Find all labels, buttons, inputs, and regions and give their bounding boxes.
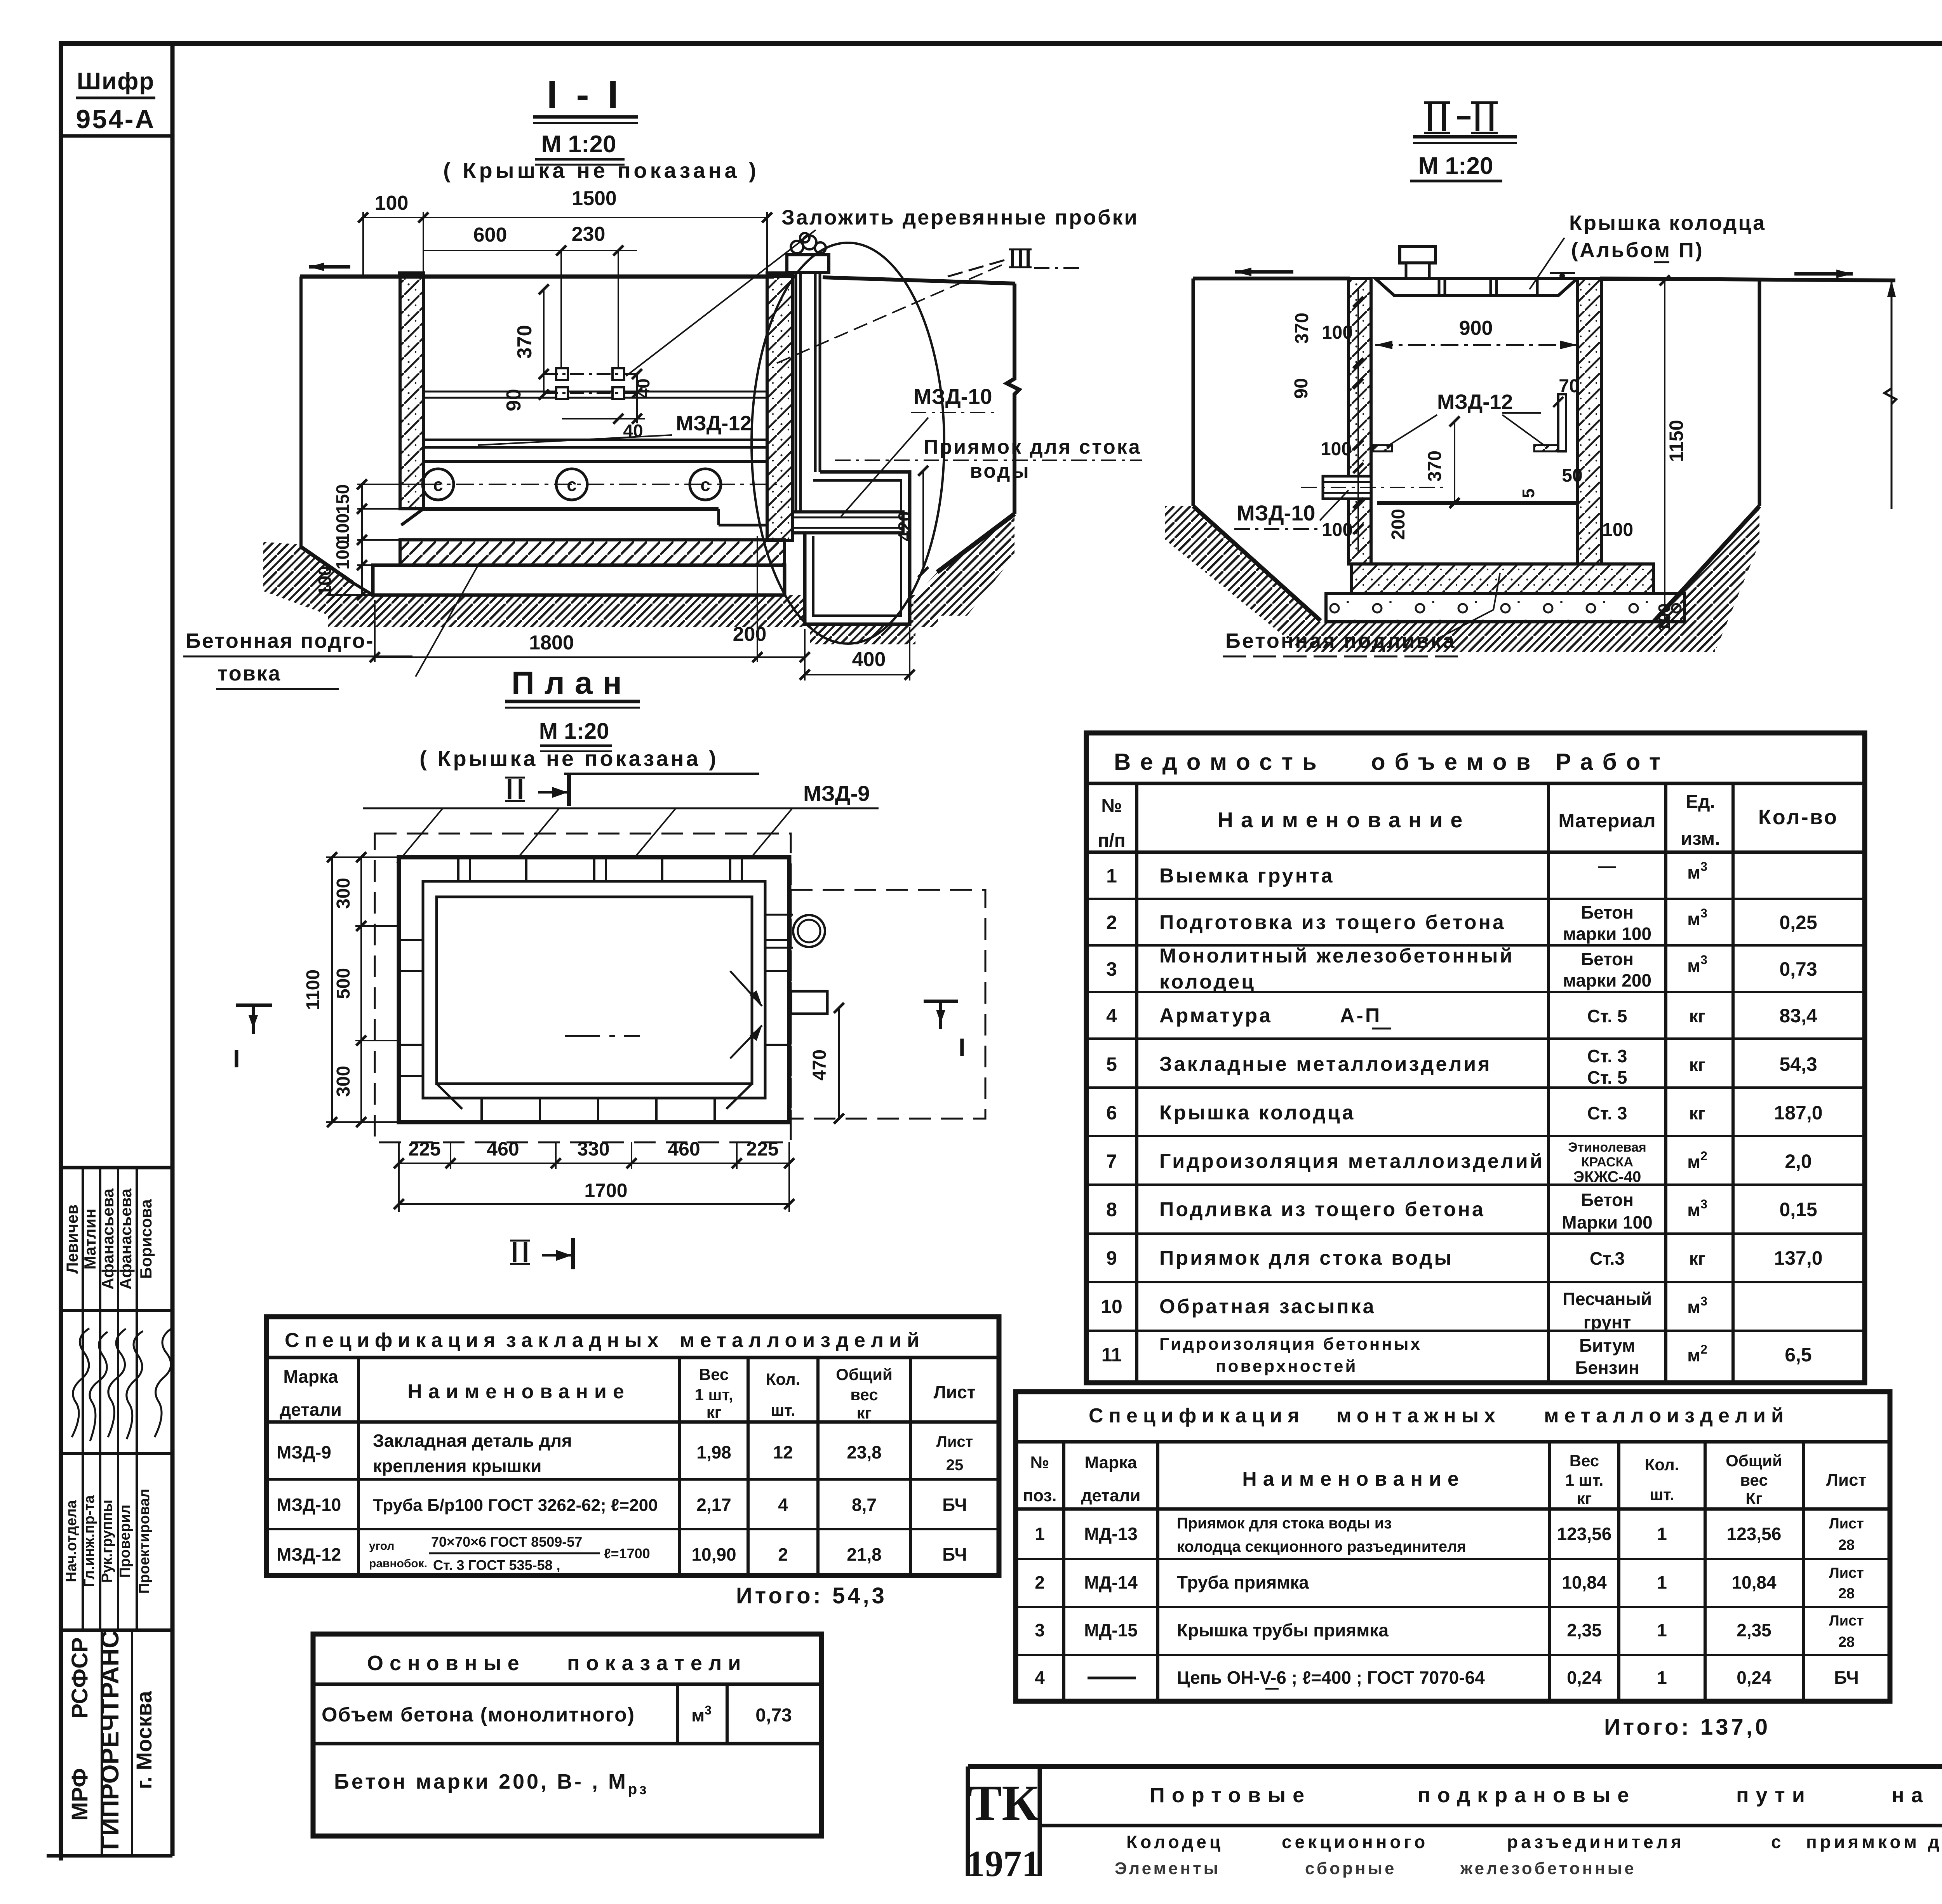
svg-text:Работ: Работ [1556, 749, 1670, 775]
svg-text:ГИПРОРЕЧТРАНС: ГИПРОРЕЧТРАНС [96, 1630, 124, 1850]
svg-text:200: 200 [1388, 509, 1409, 540]
block ticks top/bottom [399, 857, 789, 1122]
svg-text:954-А: 954-А [76, 104, 155, 134]
stub right [791, 991, 827, 1014]
svg-text:Подготовка из тощего бетона: Подготовка из тощего бетона [1159, 911, 1506, 934]
svg-text:187,0: 187,0 [1774, 1102, 1822, 1124]
svg-text:54,3: 54,3 [1779, 1053, 1817, 1075]
svg-text:Левичев: Левичев [63, 1204, 81, 1274]
svg-text:460: 460 [487, 1138, 519, 1160]
t1 rows: Кол-во [1774, 912, 1822, 1366]
svg-text:5: 5 [1519, 489, 1538, 498]
svg-text:Марка: Марка [283, 1366, 338, 1387]
svg-text:Марка: Марка [1084, 1453, 1137, 1472]
svg-text:123,56: 123,56 [1727, 1524, 1782, 1544]
svg-text:Подливка из тощего бетона: Подливка из тощего бетона [1159, 1198, 1485, 1221]
svg-text:вес: вес [850, 1385, 878, 1404]
excavation outline [299, 277, 303, 547]
svg-text:23,8: 23,8 [847, 1442, 882, 1462]
svg-text:Крышка колодца: Крышка колодца [1569, 211, 1766, 235]
svg-text:200: 200 [733, 623, 767, 646]
svg-text:Этинолевая: Этинолевая [1568, 1140, 1646, 1155]
strip rotated names [63, 1188, 155, 1290]
svg-text:1 шт.: 1 шт. [1565, 1471, 1604, 1489]
svg-text:Ст. 3 ГОСТ 535-58 ,: Ст. 3 ГОСТ 535-58 , [433, 1557, 560, 1573]
svg-text:МЗД-10: МЗД-10 [1237, 501, 1316, 525]
t1 rows: Наименование [1159, 865, 1544, 1376]
strip rotated org names [67, 1630, 156, 1850]
svg-text:МЗД-9: МЗД-9 [277, 1442, 331, 1462]
svg-text:Бетон: Бетон [1581, 949, 1634, 969]
vertical pipe [796, 273, 820, 512]
svg-text:равнобок.: равнобок. [369, 1557, 427, 1570]
svg-text:370: 370 [513, 325, 536, 359]
svg-text:ТК: ТК [968, 1775, 1039, 1831]
svg-text:Шифр: Шифр [77, 68, 155, 95]
svg-text:2,35: 2,35 [1567, 1620, 1602, 1640]
svg-text:28: 28 [1838, 1634, 1855, 1650]
svg-text:Общий: Общий [836, 1365, 893, 1384]
svg-text:230: 230 [572, 223, 606, 245]
svg-text:Итого: 137,0: Итого: 137,0 [1604, 1714, 1770, 1740]
section III mark [1013, 249, 1028, 267]
svg-text:90: 90 [503, 389, 525, 411]
svg-text:100: 100 [315, 566, 335, 596]
II-II title [1424, 103, 1498, 133]
svg-text:Элементы: Элементы [1115, 1859, 1220, 1878]
svg-text:детали: детали [1081, 1486, 1141, 1505]
svg-text:Крышка колодца: Крышка колодца [1159, 1102, 1355, 1124]
svg-text:Ст. 3: Ст. 3 [1587, 1103, 1627, 1123]
svg-text:( Крышка не показана ): ( Крышка не показана ) [419, 746, 719, 771]
svg-text:Спецификация: Спецификация [1089, 1405, 1305, 1427]
svg-text:4: 4 [1106, 1005, 1117, 1027]
svg-text:50: 50 [1562, 465, 1582, 486]
left dims [326, 857, 399, 1122]
svg-text:Кол.: Кол. [766, 1370, 800, 1388]
svg-text:330: 330 [577, 1138, 609, 1160]
svg-text:1150: 1150 [1665, 420, 1687, 462]
svg-text:Рук.группы: Рук.группы [99, 1500, 115, 1583]
svg-text:Кол.: Кол. [1645, 1455, 1679, 1474]
anchor circles [423, 469, 721, 500]
svg-text:кг: кг [857, 1404, 872, 1422]
inner corner bevels bottom [437, 1084, 462, 1109]
svg-text:83,4: 83,4 [1779, 1005, 1817, 1027]
svg-text:марки 200: марки 200 [1563, 970, 1651, 990]
svg-text:шт.: шт. [771, 1401, 795, 1419]
wall left (hatched) [400, 277, 423, 509]
svg-text:1,98: 1,98 [696, 1442, 731, 1462]
svg-text:100: 100 [332, 513, 353, 543]
pipe circle right [793, 915, 825, 947]
svg-text:900: 900 [1459, 317, 1493, 339]
svg-text:0,24: 0,24 [1737, 1667, 1771, 1688]
900 dim [1375, 344, 1577, 346]
svg-text:ℓ=1700: ℓ=1700 [604, 1545, 650, 1561]
svg-text:металлоизделий: металлоизделий [680, 1329, 925, 1352]
svg-text:угол: угол [369, 1540, 394, 1552]
balloon ellipse [752, 243, 944, 644]
svg-text:детали: детали [280, 1399, 342, 1420]
svg-text:10,84: 10,84 [1731, 1572, 1777, 1592]
svg-text:Гидроизоляция металлоизделий: Гидроизоляция металлоизделий [1159, 1150, 1544, 1173]
svg-text:1100: 1100 [303, 969, 324, 1010]
svg-text:2: 2 [1106, 912, 1117, 933]
svg-text:600: 600 [473, 224, 507, 246]
ground hatch wedges [263, 542, 357, 617]
svg-text:Материал: Материал [1558, 810, 1656, 832]
svg-text:А-П: А-П [1340, 1004, 1382, 1027]
svg-text:БЧ: БЧ [942, 1544, 967, 1565]
svg-text:МЗД-9: МЗД-9 [803, 781, 870, 806]
svg-text:поз.: поз. [1023, 1486, 1057, 1505]
svg-text:7: 7 [1106, 1150, 1117, 1172]
cover slab [1375, 278, 1577, 296]
left dim stack [326, 484, 423, 595]
svg-text:кг: кг [1689, 1248, 1705, 1269]
svg-text:25: 25 [946, 1457, 964, 1474]
wall top caps [398, 272, 425, 277]
svg-text:10,90: 10,90 [691, 1544, 736, 1565]
svg-text:секционного: секционного [1282, 1832, 1428, 1852]
svg-text:420: 420 [894, 512, 915, 541]
svg-text:М 1:20: М 1:20 [1418, 153, 1493, 179]
svg-text:с: с [1771, 1832, 1784, 1852]
svg-text:Ед.: Ед. [1686, 792, 1715, 812]
strip rotated job titles [63, 1489, 153, 1594]
svg-text:ЭКЖС-40: ЭКЖС-40 [1573, 1168, 1641, 1185]
II bottom marker [510, 1241, 530, 1264]
II top marker [505, 778, 525, 801]
svg-text:370: 370 [1425, 451, 1445, 482]
dashed excavation outline [375, 834, 791, 1142]
strip signatures (cursive squiggles) [72, 1328, 172, 1441]
svg-text:1800: 1800 [529, 632, 574, 654]
svg-text:150: 150 [332, 484, 353, 514]
walls [1349, 278, 1371, 564]
svg-text:28: 28 [1838, 1586, 1855, 1602]
svg-text:МЗД-10: МЗД-10 [277, 1495, 341, 1515]
svg-text:Лист: Лист [1829, 1613, 1864, 1629]
svg-text:Бетон: Бетон [1581, 1190, 1634, 1210]
ground hatch [1165, 506, 1321, 646]
svg-text:100: 100 [1321, 439, 1352, 459]
svg-text:кг: кг [1689, 1055, 1705, 1075]
svg-text:Афанасьева: Афанасьева [99, 1188, 117, 1290]
svg-text:—: — [1598, 856, 1616, 876]
upper rail thin pair [423, 391, 767, 393]
svg-text:Ведомость: Ведомость [1114, 749, 1326, 775]
bottom slabs [1351, 564, 1653, 593]
svg-text:г. Москва: г. Москва [132, 1691, 156, 1789]
svg-text:поверхностей: поверхностей [1216, 1357, 1358, 1376]
МЗД-10 horizontal pipe [792, 512, 903, 533]
svg-text:9: 9 [1106, 1247, 1117, 1269]
dims top [361, 212, 769, 372]
floor [423, 507, 719, 511]
svg-text:4: 4 [778, 1495, 788, 1515]
svg-text:Ст. 5: Ст. 5 [1587, 1006, 1627, 1026]
svg-text:Обратная засыпка: Обратная засыпка [1159, 1295, 1376, 1318]
svg-text:Портовые: Портовые [1150, 1784, 1311, 1807]
svg-text:8,7: 8,7 [852, 1495, 877, 1515]
svg-text:90: 90 [1291, 378, 1312, 399]
svg-text:товка: товка [218, 662, 281, 685]
svg-text:Нач.отдела: Нач.отдела [63, 1500, 80, 1582]
pump head [1400, 246, 1436, 263]
svg-text:2,17: 2,17 [696, 1495, 731, 1515]
svg-text:470: 470 [809, 1049, 830, 1081]
svg-text:БЧ: БЧ [942, 1495, 967, 1515]
svg-text:МД-13: МД-13 [1084, 1524, 1138, 1544]
svg-text:колодец: колодец [1159, 971, 1256, 993]
ground line [300, 275, 774, 279]
svg-text:( Крышка не показана ): ( Крышка не показана ) [443, 158, 759, 183]
svg-text:1: 1 [1106, 865, 1117, 887]
bottom dims [373, 536, 910, 680]
svg-text:370: 370 [1292, 313, 1312, 344]
bottom dims [399, 1142, 789, 1212]
svg-text:на: на [1892, 1784, 1930, 1807]
svg-text:137,0: 137,0 [1774, 1247, 1822, 1269]
svg-text:КРАСКА: КРАСКА [1581, 1155, 1633, 1170]
svg-text:Афанасьева: Афанасьева [117, 1188, 135, 1290]
svg-text:Наименование: Наименование [407, 1380, 630, 1403]
svg-text:Итого: 54,3: Итого: 54,3 [736, 1583, 887, 1608]
svg-text:1: 1 [1657, 1667, 1667, 1688]
svg-text:№: № [1030, 1453, 1049, 1472]
dims left column [1357, 289, 1359, 552]
svg-text:МРФ: МРФ [67, 1768, 92, 1821]
svg-text:Ст. 5: Ст. 5 [1587, 1067, 1627, 1088]
svg-text:Марки 100: Марки 100 [1562, 1212, 1652, 1232]
470 dim [838, 1008, 840, 1119]
svg-text:(Альбом П): (Альбом П) [1571, 238, 1704, 262]
svg-text:кг: кг [1689, 1103, 1705, 1123]
svg-text:Заложить деревянные пробки: Заложить деревянные пробки [781, 206, 1139, 229]
svg-text:40: 40 [633, 378, 653, 398]
svg-text:пути: пути [1736, 1784, 1812, 1807]
svg-text:воды: воды [970, 460, 1030, 482]
svg-text:Лист: Лист [934, 1382, 976, 1402]
svg-text:3: 3 [1106, 958, 1117, 980]
svg-text:Проверил: Проверил [117, 1505, 133, 1578]
svg-text:Битум: Битум [1579, 1335, 1635, 1356]
svg-text:Гидроизоляция бетонных: Гидроизоляция бетонных [1159, 1335, 1422, 1354]
svg-text:Приямок для стока воды: Приямок для стока воды [1159, 1247, 1453, 1269]
table: Спецификация монтажных металлоизделий [1016, 1392, 1890, 1701]
svg-text:Гл.инж.пр-та: Гл.инж.пр-та [81, 1495, 97, 1587]
svg-text:Крышка трубы приямка: Крышка трубы приямка [1177, 1620, 1389, 1640]
svg-text:I - I: I - I [547, 73, 622, 117]
interior floor [1377, 501, 1577, 505]
svg-text:1500: 1500 [572, 187, 617, 210]
bottom title block [968, 1767, 1942, 1876]
svg-text:п/п: п/п [1098, 830, 1125, 851]
svg-text:1: 1 [1035, 1524, 1045, 1544]
svg-text:М 1:20: М 1:20 [541, 131, 616, 158]
svg-text:приямком для: приямком для [1806, 1832, 1942, 1852]
I markers [236, 1004, 272, 1007]
svg-text:6,5: 6,5 [1785, 1344, 1812, 1366]
svg-text:100: 100 [1602, 520, 1633, 540]
svg-text:Наименование: Наименование [1218, 808, 1470, 832]
svg-text:План: План [512, 665, 632, 701]
svg-text:Лист: Лист [936, 1433, 973, 1450]
svg-text:Борисова: Борисова [137, 1199, 155, 1279]
svg-text:Ст. 3: Ст. 3 [1587, 1046, 1627, 1066]
walls [399, 857, 789, 1122]
excavation [1192, 278, 1195, 506]
svg-text:Выемка грунта: Выемка грунта [1159, 865, 1335, 887]
svg-text:МД-15: МД-15 [1084, 1620, 1138, 1640]
svg-text:2,0: 2,0 [1785, 1150, 1812, 1172]
svg-text:кг: кг [1577, 1489, 1592, 1507]
svg-text:Основные: Основные [367, 1652, 526, 1675]
wall right (hatched) [767, 277, 792, 541]
svg-text:4: 4 [1035, 1667, 1045, 1688]
svg-text:Труба Б/р100 ГОСТ 3262-62; ℓ=2: Труба Б/р100 ГОСТ 3262-62; ℓ=200 [373, 1496, 658, 1515]
svg-text:объемов: объемов [1371, 749, 1540, 775]
svg-text:грунт: грунт [1584, 1312, 1631, 1332]
svg-text:1700: 1700 [584, 1180, 627, 1201]
svg-text:6: 6 [1106, 1102, 1117, 1124]
svg-text:М 1:20: М 1:20 [539, 719, 609, 744]
svg-text:2: 2 [1035, 1572, 1045, 1592]
svg-text:МЗД-12: МЗД-12 [676, 412, 752, 435]
svg-text:0,73: 0,73 [755, 1705, 792, 1726]
svg-text:Приямок для стока: Приямок для стока [924, 436, 1142, 458]
svg-text:Цепь ОН-V-6 ; ℓ=400 ; ГОСТ: Цепь ОН-V-6 ; ℓ=400 ; ГОСТ 7070-64 [1177, 1667, 1485, 1688]
svg-text:21,8: 21,8 [847, 1544, 882, 1565]
svg-text:колодца секционного разъеди: колодца секционного разъединителя [1177, 1538, 1466, 1555]
left column strip [47, 41, 172, 1856]
svg-text:Лист: Лист [1826, 1471, 1867, 1490]
svg-text:Песчаный: Песчаный [1563, 1289, 1652, 1309]
svg-text:2,35: 2,35 [1737, 1620, 1771, 1640]
cover fix at right [1550, 272, 1575, 274]
svg-text:Монолитный железобетонный: Монолитный железобетонный [1159, 945, 1514, 967]
svg-text:1: 1 [1657, 1572, 1667, 1592]
svg-text:Вес: Вес [1570, 1451, 1599, 1470]
svg-text:марки 100: марки 100 [1563, 924, 1651, 944]
svg-text:Лист: Лист [1829, 1565, 1864, 1581]
svg-text:кг: кг [706, 1403, 722, 1421]
svg-text:100: 100 [1322, 520, 1353, 540]
t1 rows: Ед.изм. [1687, 860, 1707, 1365]
svg-text:Кол-во: Кол-во [1758, 806, 1838, 829]
pipe through left wall [1323, 476, 1371, 499]
dim 370 / 90 [544, 289, 645, 423]
svg-text:10: 10 [1101, 1296, 1122, 1317]
svg-text:5: 5 [1106, 1053, 1117, 1075]
svg-text:изм.: изм. [1681, 828, 1720, 849]
svg-text:Приямок для стока воды: Приямок для стока воды из [1177, 1515, 1392, 1532]
bolt squares [556, 368, 624, 399]
svg-text:Колодец: Колодец [1126, 1832, 1223, 1852]
svg-text:Матлин: Матлин [81, 1209, 99, 1270]
svg-text:вес: вес [1740, 1471, 1768, 1489]
svg-text:Закладная деталь для: Закладная деталь для [373, 1431, 572, 1451]
table: Ведомость объемов работ [1086, 733, 1865, 1383]
svg-text:70×70×6 ГОСТ 8509-57: 70×70×6 ГОСТ 8509-57 [431, 1534, 582, 1550]
table: Спецификация закладных металлоизделий [266, 1317, 999, 1575]
svg-text:300: 300 [333, 1066, 354, 1097]
svg-text:Кг: Кг [1745, 1489, 1762, 1507]
svg-text:шт.: шт. [1650, 1485, 1674, 1504]
svg-text:500: 500 [333, 968, 354, 999]
svg-text:Лист: Лист [1829, 1516, 1864, 1532]
svg-text:8: 8 [1106, 1199, 1117, 1220]
svg-text:БЧ: БЧ [1834, 1667, 1859, 1688]
svg-text:закладных: закладных [506, 1329, 664, 1352]
svg-text:Бетонная подливка: Бетонная подливка [1225, 629, 1456, 653]
svg-text:3: 3 [1035, 1620, 1045, 1640]
svg-text:МЗД-10: МЗД-10 [914, 384, 992, 409]
svg-text:Вес: Вес [699, 1365, 729, 1384]
svg-text:300: 300 [333, 878, 354, 909]
svg-text:Общий: Общий [1726, 1451, 1782, 1470]
svg-text:1 шт,: 1 шт, [694, 1385, 733, 1404]
svg-text:2: 2 [778, 1544, 788, 1565]
МЗД-12 rail double line [423, 439, 767, 441]
svg-text:железобетонные: железобетонные [1460, 1859, 1636, 1878]
svg-text:МД-14: МД-14 [1084, 1572, 1138, 1592]
svg-text:разъединителя: разъединителя [1507, 1832, 1684, 1852]
svg-text:123,56: 123,56 [1557, 1524, 1612, 1544]
ground lines [1193, 277, 1350, 280]
svg-text:I: I [959, 1033, 966, 1061]
svg-text:Объем бетона (монолитного): Объем бетона (монолитного) [322, 1704, 635, 1726]
svg-text:28: 28 [1838, 1537, 1855, 1553]
svg-text:подкрановые: подкрановые [1418, 1784, 1636, 1807]
svg-text:сборные: сборные [1305, 1859, 1396, 1878]
svg-text:№: № [1101, 795, 1122, 816]
svg-text:0,73: 0,73 [1779, 958, 1817, 980]
dim 420 [922, 471, 924, 572]
svg-text:100: 100 [1322, 322, 1353, 343]
drain arrows [730, 971, 762, 1006]
svg-text:МЗД-12: МЗД-12 [277, 1544, 341, 1565]
svg-text:100: 100 [375, 192, 409, 214]
svg-text:0,25: 0,25 [1779, 912, 1817, 933]
svg-text:РСФСР: РСФСР [67, 1637, 92, 1718]
svg-text:11: 11 [1102, 1344, 1122, 1366]
svg-text:крепления крышки: крепления крышки [373, 1456, 541, 1476]
svg-text:Бетон: Бетон [1581, 902, 1634, 922]
svg-text:Спецификация: Спецификация [285, 1329, 501, 1352]
svg-text:Бетонная подго-: Бетонная подго- [186, 629, 374, 653]
svg-text:Бензин: Бензин [1575, 1358, 1639, 1378]
МЗД-12 angles [1373, 445, 1392, 451]
svg-text:Труба приямка: Труба приямка [1177, 1572, 1309, 1592]
1150 dim [1664, 280, 1665, 622]
svg-text:1971: 1971 [966, 1843, 1040, 1884]
svg-text:0,15: 0,15 [1779, 1199, 1817, 1220]
svg-text:I: I [233, 1045, 240, 1073]
приямок box [805, 478, 910, 624]
svg-text:Проектировал: Проектировал [136, 1489, 153, 1594]
svg-text:1: 1 [1657, 1524, 1667, 1544]
svg-text:70: 70 [1559, 376, 1579, 397]
svg-text:Наименование: Наименование [1242, 1468, 1465, 1490]
svg-text:10,84: 10,84 [1562, 1572, 1607, 1592]
svg-text:Ст.3: Ст.3 [1590, 1248, 1625, 1269]
svg-text:кг: кг [1689, 1006, 1705, 1026]
svg-text:монтажных: монтажных [1336, 1405, 1501, 1427]
svg-text:460: 460 [668, 1138, 700, 1160]
